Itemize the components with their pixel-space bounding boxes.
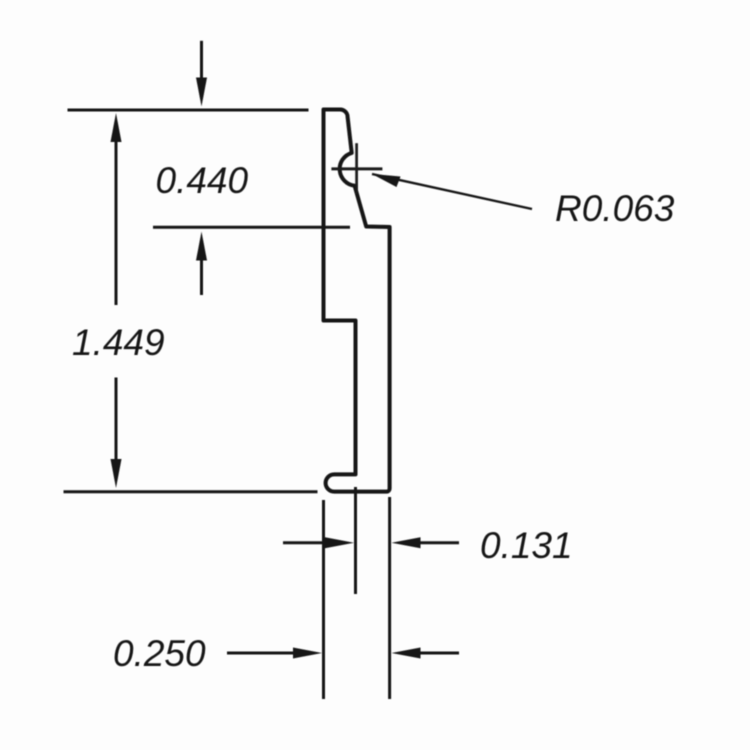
extension line middle lower (x=355.5) (354, 487, 357, 594)
dimension 0.131 left arrow (283, 537, 354, 548)
dimension 0.440 lower arrow (up) (196, 232, 207, 296)
extension line bottom (y=491.8) (64, 490, 318, 493)
extension line top (y=110) (68, 109, 309, 112)
svg-text:0.131: 0.131 (480, 525, 573, 566)
svg-text:0.440: 0.440 (156, 160, 249, 201)
dimension 0.131 right arrow (392, 537, 460, 548)
svg-text:0.250: 0.250 (113, 633, 206, 674)
center mark cross R0.063 (331, 143, 382, 194)
extension line right lower (x=389.6) (388, 497, 391, 699)
extension line 0.440 (y=227.2) (153, 226, 350, 229)
dimension 0.250 left arrow (227, 648, 322, 659)
profile outline (324, 109, 390, 491)
svg-text:1.449: 1.449 (72, 322, 165, 363)
dimension 0.250 right arrow (392, 648, 460, 659)
leader R0.063 (372, 174, 532, 209)
dimension 1.449 line with arrows (111, 113, 122, 488)
svg-text:R0.063: R0.063 (555, 188, 675, 229)
extension line left lower (x=323.5) (322, 500, 325, 699)
dimension 0.440 upper arrow (down) (196, 41, 207, 107)
